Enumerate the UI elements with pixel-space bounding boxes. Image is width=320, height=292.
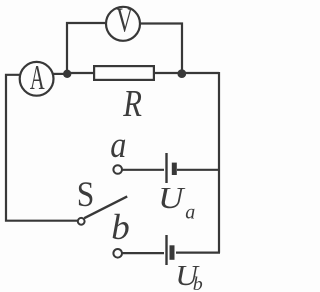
wire [67,72,93,74]
wire [52,73,67,75]
node a [113,165,122,174]
svg-text:a: a [110,124,126,166]
battery Ua [167,153,175,183]
ammeter A [20,58,54,97]
svg-text:R: R [122,83,142,125]
voltmeter V [106,1,140,41]
wire [6,75,78,221]
junction node [177,69,186,78]
battery Ub [167,235,173,265]
wire [176,252,220,254]
wire [67,23,105,73]
wire [182,72,219,74]
svg-text:V: V [116,1,133,40]
junction node [63,70,71,78]
label Ua [158,182,195,224]
wire [218,72,220,253]
switch S [78,196,127,224]
wire [122,169,164,171]
wire [177,169,220,171]
node b [113,249,122,258]
wire [141,24,182,74]
svg-text:b: b [111,208,129,247]
wire [122,252,164,254]
svg-text:S: S [77,175,95,214]
wire [155,72,182,74]
svg-text:U: U [158,182,186,216]
svg-text:A: A [30,58,45,97]
svg-text:a: a [185,201,195,223]
svg-text:b: b [193,274,203,292]
resistor R [94,66,154,80]
label Ub [175,260,203,292]
